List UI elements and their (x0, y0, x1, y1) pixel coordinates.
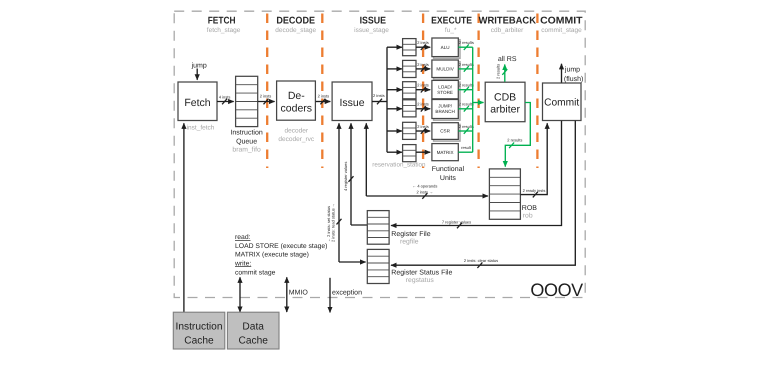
wire Decoders to Issue (2 insts) (316, 93, 331, 104)
wire Issue to Register File (4 register values) (343, 123, 367, 225)
svg-text:STORE: STORE (437, 90, 453, 95)
wire trunk to RS4 (387, 108, 402, 110)
svg-text:2 insts: 2 insts (318, 93, 330, 98)
wire CSR result to CDB trunk (458, 124, 474, 134)
block Issue (332, 82, 372, 121)
svg-text:Instruction: Instruction (230, 128, 262, 136)
svg-text:2 results: 2 results (496, 64, 501, 79)
block CDB arbiter (485, 82, 525, 122)
wire exception output (330, 278, 362, 313)
block Register Status File (regstatus) (367, 249, 452, 283)
svg-text:2 insts: 2 insts (417, 83, 429, 88)
functional unit JUMP/BRANCH (432, 100, 460, 121)
block Instruction Queue (bram_fifo) (230, 76, 262, 153)
svg-text:fu_*: fu_* (445, 27, 457, 34)
reservation station RS4 (403, 100, 416, 117)
svg-text:7 register values: 7 register values (442, 220, 471, 225)
wire RS5 to CSR (2 insts) (416, 124, 430, 134)
svg-text:WRITEBACK: WRITEBACK (479, 15, 536, 26)
svg-text:OOOV: OOOV (530, 280, 583, 300)
svg-text:2 ready insts: 2 ready insts (523, 188, 546, 193)
header COMMIT (540, 15, 582, 34)
svg-text:MATRIX (execute stage): MATRIX (execute stage) (235, 252, 309, 259)
svg-text:Issue: Issue (339, 97, 364, 109)
svg-text:Cache: Cache (238, 336, 268, 347)
svg-text:jump: jump (191, 61, 207, 69)
block Commit (543, 83, 582, 121)
svg-text:2 insts: 2 insts (417, 40, 429, 45)
svg-text:2 results: 2 results (459, 124, 474, 129)
svg-text:decode_stage: decode_stage (275, 27, 316, 34)
reservation station RS5 (403, 122, 416, 139)
wire ROB to Commit (2 ready insts) (520, 123, 547, 197)
svg-text:CSR: CSR (440, 129, 450, 134)
header DECODE (275, 15, 316, 34)
wire Commit to Register Status File (2 insts: clear status) (391, 121, 575, 268)
wire Instruction Queue to Decoders (2 insts) (258, 93, 275, 104)
block Decoders (decoder decoder_rvc) (277, 81, 316, 143)
svg-text:write:: write: (234, 260, 251, 267)
svg-text:cdb_arbiter: cdb_arbiter (491, 27, 524, 34)
header WRITEBACK (479, 15, 536, 34)
svg-text:FETCH: FETCH (208, 15, 236, 26)
svg-text:ISSUE: ISSUE (360, 15, 387, 26)
reservation station RS2 (403, 60, 416, 77)
wire RS4 to JUMP/BRANCH (2 insts) (416, 102, 430, 112)
svg-text:Units: Units (440, 174, 456, 182)
svg-text:all RS: all RS (498, 55, 517, 63)
block Fetch (inst_fetch) (178, 82, 217, 131)
svg-text:Register Status File: Register Status File (391, 268, 452, 276)
wire Commit to Register File (7 register values) (391, 121, 562, 229)
svg-text:2 results: 2 results (459, 62, 474, 67)
svg-text:De-: De- (288, 90, 305, 102)
svg-text:result: result (461, 145, 472, 150)
svg-text:← 4 operands: ← 4 operands (412, 184, 437, 189)
svg-text:LOAD STORE (execute stage): LOAD STORE (execute stage) (235, 243, 327, 250)
svg-text:2 insts: 2 insts (417, 62, 429, 67)
svg-text:ROB: ROB (522, 205, 538, 212)
functional unit MULDIV (432, 60, 460, 79)
svg-text:MMIO: MMIO (289, 289, 309, 296)
svg-text:Commit: Commit (544, 98, 579, 109)
stage separator EXECUTE/WRITEBACK (477, 14, 479, 169)
svg-text:decoder: decoder (285, 128, 309, 135)
wire LOAD/STORE result to CDB trunk (458, 83, 474, 93)
reservation station RS6 (403, 145, 416, 162)
wire trunk into CDB arbiter (473, 102, 484, 104)
header FETCH (207, 15, 241, 34)
svg-text:2 insts: read status →: 2 insts: read status → (331, 203, 336, 242)
svg-text:4 insts: 4 insts (219, 94, 231, 99)
block Instruction Cache (173, 312, 225, 349)
wire trunk to RS2 (387, 68, 402, 70)
svg-text:COMMIT: COMMIT (540, 15, 582, 26)
reservation station RS1 (403, 39, 416, 56)
svg-text:Functional: Functional (432, 165, 465, 173)
wire Commit jump (flush) output (562, 64, 584, 83)
svg-text:(flush): (flush) (564, 75, 583, 83)
svg-text:Register File: Register File (391, 230, 430, 238)
svg-text:regfile: regfile (400, 239, 419, 246)
svg-text:bram_fifo: bram_fifo (232, 146, 261, 153)
svg-text:2 insts →: 2 insts → (416, 190, 433, 195)
svg-text:fetch_stage: fetch_stage (207, 27, 241, 34)
functional unit LOAD/STORE (432, 80, 460, 100)
wire MULDIV result to CDB trunk (458, 62, 474, 72)
svg-text:commit_stage: commit_stage (541, 27, 582, 34)
wire MMIO port (287, 277, 309, 312)
svg-text:MULDIV: MULDIV (436, 67, 454, 72)
svg-text:2 results: 2 results (459, 83, 474, 88)
svg-text:commit stage: commit stage (235, 269, 276, 276)
stage separator ISSUE/EXECUTE (422, 14, 424, 169)
svg-text:ALU: ALU (441, 45, 450, 50)
wire commit stage to Data Cache (bidirectional) (239, 277, 241, 312)
memory access note text (234, 234, 327, 276)
svg-text:CDB: CDB (494, 91, 516, 103)
svg-text:2 insts: 2 insts (417, 102, 429, 107)
wire ALU result to CDB trunk (458, 40, 474, 50)
outer dashed pipeline boundary (174, 11, 585, 297)
svg-text:BRANCH: BRANCH (435, 109, 454, 114)
stage separator WRITEBACK/COMMIT (536, 14, 538, 169)
reservation station RS3 (403, 82, 416, 99)
wire Instruction Cache to Fetch (183, 123, 185, 312)
svg-text:JUMP/: JUMP/ (438, 104, 453, 109)
wire Fetch to Instruction Queue (4 insts) (217, 94, 234, 104)
header EXECUTE (431, 15, 472, 34)
svg-text:Data: Data (242, 322, 264, 333)
wire JUMP/BRANCH result to CDB trunk (458, 102, 474, 112)
stage separator DECODE/ISSUE (321, 14, 323, 169)
svg-text:arbiter: arbiter (490, 103, 520, 115)
svg-text:MATRIX: MATRIX (437, 150, 454, 155)
svg-text:2 results: 2 results (507, 138, 522, 143)
CDB result trunk (472, 47, 474, 152)
wire trunk to RS3 (387, 89, 402, 91)
stage separator FETCH/DECODE (266, 14, 268, 169)
wire Issue to Register Status File (set/read status) (326, 123, 366, 262)
wire CDB arbiter to all RS (2 results) (496, 55, 517, 82)
svg-text:LOAD/: LOAD/ (438, 85, 453, 90)
svg-text:coders: coders (281, 103, 313, 115)
block ROB (rob) (489, 169, 537, 220)
wire CDB arbiter to ROB (2 results) (505, 103, 530, 167)
svg-text:issue_stage: issue_stage (354, 27, 389, 34)
svg-text:reservation_station: reservation_station (372, 161, 426, 168)
svg-text:Cache: Cache (184, 336, 214, 347)
functional unit MATRIX (432, 144, 458, 161)
svg-text:decoder_rvc: decoder_rvc (278, 136, 315, 143)
block Data Cache (227, 312, 279, 349)
svg-text:2 results: 2 results (459, 102, 474, 107)
label Functional Units (432, 165, 465, 182)
svg-text:2 insts: clear status: 2 insts: clear status (464, 258, 498, 263)
header ISSUE (354, 15, 389, 34)
wire RS2 to MULDIV (2 insts) (416, 62, 430, 72)
svg-text:read:: read: (235, 234, 251, 241)
svg-text:4 register values: 4 register values (343, 162, 348, 191)
wire Issue to ROB (4 operands / 2 insts) (366, 123, 488, 199)
wire MATRIX result to CDB trunk (458, 145, 472, 152)
svg-text:2 insts: 2 insts (417, 124, 429, 129)
svg-text:2 insts: 2 insts (373, 93, 385, 98)
wire trunk to RS1 (387, 46, 402, 48)
functional unit CSR (432, 123, 460, 141)
wire RS1 to ALU (2 insts) (416, 40, 430, 50)
wire RS3 to LOAD/STORE (2 insts) (416, 83, 430, 93)
svg-text:EXECUTE: EXECUTE (431, 15, 472, 26)
svg-text:Instruction: Instruction (176, 322, 223, 333)
wire jump into Fetch (191, 61, 207, 80)
svg-text:2 results: 2 results (459, 40, 474, 45)
svg-text:Fetch: Fetch (184, 97, 210, 109)
svg-text:jump: jump (564, 65, 580, 73)
block Register File (regfile) (367, 211, 430, 246)
svg-text:rob: rob (523, 213, 533, 220)
svg-text:2 insts: 2 insts (260, 93, 272, 98)
svg-text:inst_fetch: inst_fetch (187, 124, 215, 131)
functional unit ALU (432, 38, 460, 58)
wire trunk to RS5 (387, 130, 402, 132)
svg-text:DECODE: DECODE (276, 15, 315, 26)
svg-text:exception: exception (332, 289, 362, 297)
wire Issue to reservation-station trunk (2 insts) (372, 47, 387, 152)
svg-text:regstatus: regstatus (406, 277, 435, 284)
wire RS6 to MATRIX (416, 151, 430, 153)
wire trunk to RS6 (387, 151, 402, 153)
svg-text:Queue: Queue (236, 139, 257, 146)
